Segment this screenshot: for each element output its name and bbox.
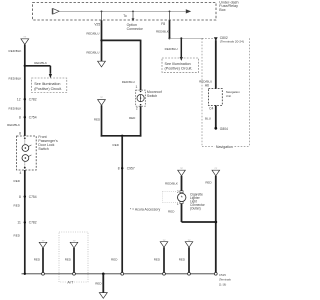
svg-text:RED/BLK: RED/BLK: [9, 107, 22, 111]
svg-text:RED/BLK: RED/BLK: [156, 29, 169, 33]
node: connector 8 C957: [118, 166, 135, 170]
svg-text:Switch: Switch: [38, 147, 48, 151]
svg-text:C957: C957: [127, 166, 135, 170]
node: connector 8 C754: [19, 116, 37, 120]
wire: V25 feed RED/BLU: [101, 20, 103, 61]
node: connector 8 C754 lower: [19, 195, 37, 199]
label: Cigarette Lighter Light Connector (Outlet): [190, 193, 206, 211]
svg-text:(Outlet): (Outlet): [190, 207, 201, 211]
wire: RED to bus: [42, 248, 44, 274]
off-page connector triangle (out): [98, 61, 106, 67]
node: connector C515 (Terminals 11-16): [214, 272, 231, 286]
svg-text:RED: RED: [14, 233, 21, 237]
node: bus junction center drop (open): [121, 272, 124, 275]
arrow: to illumination circuit RED/BLU: [180, 38, 183, 61]
navigation dashed enclosure: [202, 38, 250, 146]
svg-text:See Illumination: See Illumination: [34, 82, 60, 86]
svg-text:8: 8: [19, 195, 21, 199]
off-page connector triangle (in) right feed: [212, 168, 220, 176]
label: Moonroof Switch: [147, 90, 162, 98]
wire: RED/BLU into navigation unit: [215, 40, 217, 88]
svg-text:RED/BLU: RED/BLU: [122, 80, 135, 84]
svg-text:RED/BLU: RED/BLU: [165, 47, 178, 51]
svg-text:RED: RED: [179, 258, 186, 262]
box: See Illumination (Positive) Circuit (right): [162, 58, 199, 72]
svg-text:RED/BLK: RED/BLK: [34, 61, 47, 65]
wire: lighter RED down: [181, 204, 183, 223]
svg-text:F8: F8: [161, 22, 165, 26]
svg-text:RED: RED: [168, 210, 175, 214]
wire: RED to bus: [163, 247, 165, 273]
wire: thin link towards C802: [170, 37, 204, 39]
svg-text:RED: RED: [111, 258, 118, 262]
svg-text:(Positive) Circuit.: (Positive) Circuit.: [34, 87, 62, 91]
wire: lower left RED: [24, 170, 26, 274]
svg-text:(Terminals: (Terminals: [219, 278, 232, 282]
wire: from off-page connector down: [101, 105, 103, 136]
internal bus wire inside fuse box: [59, 10, 186, 12]
svg-text:C782: C782: [29, 97, 37, 101]
svg-text:RED: RED: [113, 143, 120, 147]
svg-text:737: 737: [100, 97, 103, 99]
svg-text:A6: A6: [205, 84, 209, 88]
node: connector 12 C782: [17, 97, 37, 101]
under-dash fuse/relay box (dashed enclosure): [33, 3, 217, 21]
node: junction to moonroof branch: [100, 39, 102, 41]
svg-text:11: 11: [17, 221, 21, 225]
svg-text:RED: RED: [14, 204, 21, 208]
off-page connector triangle (in) bus tap 1: [39, 240, 47, 248]
svg-text:C515: C515: [219, 273, 226, 277]
wire: RED/BLK to cigarette lighter: [181, 176, 183, 191]
off-page connector triangle (in) bus tap 2 (A/T): [70, 240, 78, 248]
internal bus right arrowhead: [186, 9, 191, 13]
node: junction with lighter feed: [214, 221, 217, 224]
svg-text:RED: RED: [154, 258, 161, 262]
label: To Option Connector: [123, 14, 143, 31]
node: connector 11 C782 lower: [17, 221, 36, 225]
svg-text:C754: C754: [29, 116, 37, 120]
off-page connector triangle (out) below bus: [99, 293, 107, 299]
dotted outline at lighter: [163, 191, 178, 202]
svg-text:RED: RED: [65, 257, 72, 261]
svg-text:A/T: A/T: [67, 280, 74, 284]
wire: left feed RED/BLK upper: [24, 45, 26, 137]
wire: center drop to bus: [121, 136, 123, 274]
wire: F8 output RED/BLK: [169, 20, 171, 38]
left feed: off-page connector triangle (in): [21, 37, 29, 45]
svg-text:RED/BLU: RED/BLU: [86, 32, 99, 36]
wire: RED to bus (A/T): [73, 248, 75, 274]
svg-text:V25: V25: [94, 23, 100, 27]
wire: down to moonroof switch: [140, 40, 142, 91]
svg-text:1: 1: [177, 202, 179, 206]
node: F8 tap on internal bus: [169, 11, 171, 13]
svg-text:See Illumination: See Illumination: [165, 62, 191, 66]
svg-text:737: 737: [23, 37, 26, 39]
node: V25 tap on internal bus: [101, 11, 103, 13]
wire: horizontal collector under moonroof: [101, 135, 142, 137]
svg-text:* = Acura Accessory: * = Acura Accessory: [130, 208, 161, 212]
svg-text:BLU: BLU: [205, 116, 211, 120]
svg-text:Switch: Switch: [147, 94, 157, 98]
svg-text:To: To: [123, 14, 127, 18]
box: See Illumination (Positive) Circuit (left): [32, 78, 67, 93]
svg-text:Unit: Unit: [226, 94, 232, 98]
label: Front Passenger's Door Lock Switch: [38, 135, 58, 151]
cigarette lighter / accessory power socket: [178, 191, 186, 204]
wire: RED to bus: [188, 247, 190, 273]
svg-text:11-16): 11-16): [219, 282, 226, 286]
svg-text:RED/BLK: RED/BLK: [9, 77, 22, 81]
wire: BLU to ground: [215, 105, 217, 128]
svg-text:RED/BLK: RED/BLK: [165, 182, 178, 186]
svg-text:RED: RED: [34, 257, 41, 261]
node: bus junction below-bus drop: [102, 273, 105, 276]
svg-text:RED: RED: [14, 179, 21, 183]
svg-text:2: 2: [177, 190, 179, 194]
svg-text:(Terminals 20-24): (Terminals 20-24): [220, 40, 244, 44]
node: illumination branch junction: [24, 65, 26, 67]
svg-text:C782: C782: [29, 221, 37, 225]
moonroof switch U-box: [136, 90, 146, 106]
node: illumination branch tap: [180, 37, 182, 39]
svg-text:RED: RED: [94, 117, 101, 121]
svg-text:RED/BLK: RED/BLK: [9, 49, 22, 53]
svg-text:Navigation: Navigation: [216, 145, 233, 149]
svg-text:Connector: Connector: [127, 27, 144, 31]
svg-text:RED: RED: [129, 116, 136, 120]
off-page connector triangle (in) bus tap 4: [185, 240, 193, 248]
wire: lighter feed horizontal to junction: [182, 221, 216, 223]
wire: branch to left illumination circuit: [25, 66, 52, 79]
svg-text:4: 4: [20, 171, 22, 175]
node: bus junction left wire: [24, 273, 26, 275]
svg-text:8: 8: [19, 132, 21, 136]
svg-text:RED/BLK: RED/BLK: [7, 123, 20, 127]
wire: branch to moonroof switch: [102, 39, 141, 41]
svg-text:RED: RED: [205, 181, 212, 185]
svg-text:RED/BLU: RED/BLU: [86, 51, 99, 55]
navigation unit box: [208, 89, 222, 106]
node: bus junction tap2 (open): [73, 272, 76, 275]
power source symbol (bar + hollow triangle) inside fuse box: [52, 8, 59, 14]
A/T dotted option box: [59, 232, 88, 284]
svg-text:8: 8: [118, 166, 120, 170]
label: Navigation Unit: [226, 90, 241, 98]
ground point G804: [214, 127, 228, 131]
node: bus junction tap3 (open): [163, 272, 166, 275]
svg-text:2: 2: [136, 107, 138, 111]
node: bus junction tap4 (open): [188, 272, 191, 275]
node: option-connector tap on internal bus: [132, 11, 134, 13]
svg-text:RED: RED: [95, 282, 102, 286]
wire: option connector drop with arrow: [132, 11, 135, 21]
front passenger's door lock switch (dashed box): [17, 136, 37, 170]
off-page connector triangle (in) lighter feed: [178, 168, 186, 176]
svg-text:C4: C4: [209, 107, 213, 111]
svg-text:*: *: [181, 196, 183, 202]
svg-text:12: 12: [17, 97, 21, 101]
wire: F8 drop inside fuse box: [169, 11, 171, 20]
wire: right feed RED to bus: [215, 176, 217, 274]
node: F8 wire end: [168, 37, 170, 39]
off-page connector triangle (in) bus tap 3: [160, 240, 168, 248]
wire: RED drop below bus: [102, 274, 104, 293]
off-page connector triangle (in): [98, 97, 106, 105]
svg-text:G804: G804: [220, 127, 228, 131]
svg-text:1: 1: [136, 85, 138, 89]
svg-text:8: 8: [19, 116, 21, 120]
node: bus junction tap1 (open): [42, 272, 45, 275]
label: Under-dash Fuse/Relay Box: [219, 0, 238, 11]
node: junction on collector: [121, 135, 123, 137]
svg-text:C754: C754: [29, 195, 37, 199]
svg-text:(Positive) Circuit.: (Positive) Circuit.: [165, 66, 193, 70]
wire: V25 drop inside fuse box: [101, 11, 103, 20]
svg-text:Box: Box: [219, 8, 226, 12]
wire: moonroof switch to junction, RED: [140, 106, 142, 136]
bus wire to C515: [22, 273, 216, 275]
node: connector C802 (Terminals 20-24): [214, 36, 244, 44]
